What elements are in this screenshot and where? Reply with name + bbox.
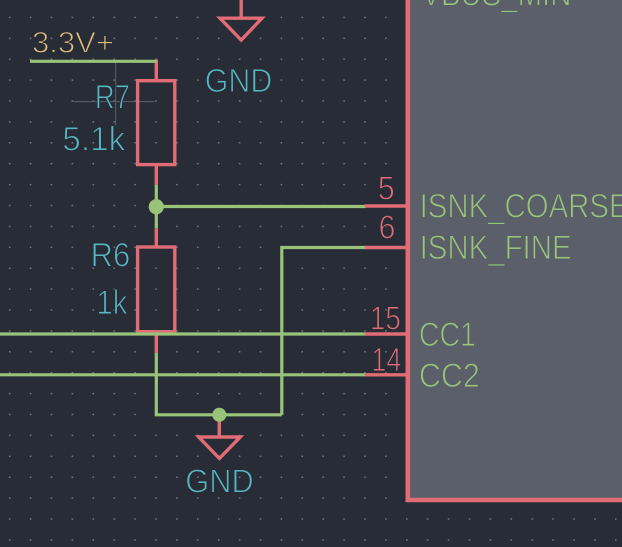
ground symbol top xyxy=(220,0,262,40)
resistor R6 body xyxy=(138,247,175,332)
resistor R6 bottom pin xyxy=(155,332,158,353)
IC pin 6 xyxy=(365,246,408,249)
junction node at gnd net xyxy=(212,408,226,422)
resistor R7 bottom pin xyxy=(155,165,158,185)
wire CC1 xyxy=(0,332,366,335)
svg-text:GND: GND xyxy=(185,462,253,499)
wire 3.3V to R7 xyxy=(30,60,157,63)
ground symbol bottom xyxy=(199,415,241,459)
svg-text:5.1k: 5.1k xyxy=(62,121,126,159)
IC pin 14 xyxy=(365,373,408,376)
IC pin 15 xyxy=(365,332,408,335)
svg-text:R7: R7 xyxy=(95,78,130,116)
svg-text:15: 15 xyxy=(370,299,401,336)
svg-text:6: 6 xyxy=(379,209,396,246)
svg-text:CC1: CC1 xyxy=(419,316,476,354)
wire R6 bottom to gnd xyxy=(156,353,281,415)
svg-text:R6: R6 xyxy=(91,237,131,275)
svg-text:5: 5 xyxy=(378,170,395,207)
IC U? outline xyxy=(408,0,622,500)
junction node at R7/R6 divider xyxy=(149,199,164,214)
IC pin 5 xyxy=(365,204,408,207)
svg-text:CC2: CC2 xyxy=(419,357,480,395)
wire CC2 xyxy=(0,373,366,376)
svg-text:GND: GND xyxy=(205,62,272,99)
svg-text:3.3V+: 3.3V+ xyxy=(32,27,114,60)
wire junction to pin 5 xyxy=(156,205,366,208)
svg-text:14: 14 xyxy=(371,341,401,378)
wire R7 to R6 xyxy=(155,185,158,228)
resistor R7 top pin xyxy=(155,60,158,81)
svg-text:VBUS_MIN: VBUS_MIN xyxy=(421,0,571,14)
op-amp U? IC body fill xyxy=(408,0,622,500)
resistor R7 body xyxy=(138,81,175,165)
svg-text:ISNK_COARSE: ISNK_COARSE xyxy=(420,188,622,226)
text anchor crosshair near R7 xyxy=(74,62,155,125)
svg-text:1k: 1k xyxy=(96,284,128,322)
resistor R6 top pin xyxy=(155,228,158,247)
wire pin 6 down to gnd net xyxy=(282,248,366,415)
svg-text:ISNK_FINE: ISNK_FINE xyxy=(420,229,572,267)
